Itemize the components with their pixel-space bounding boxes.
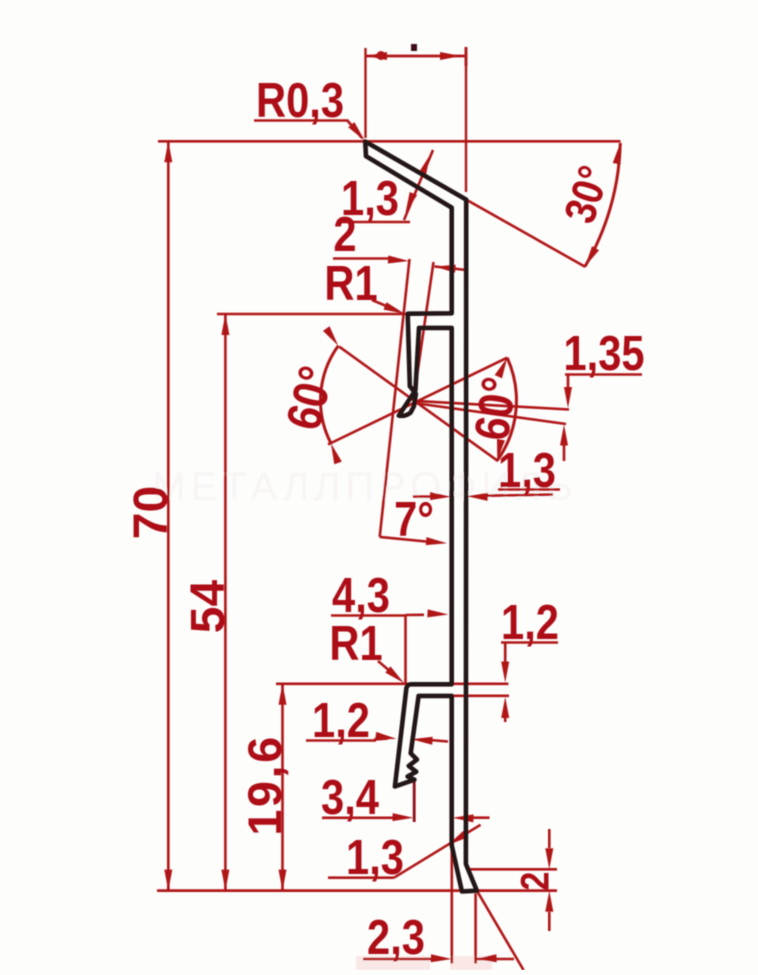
reference line y890 [157, 889, 557, 892]
svg-text:7°: 7° [394, 492, 434, 547]
svg-text:R1: R1 [324, 256, 377, 311]
angle 60deg left [276, 326, 345, 464]
label 1,3 top leader [338, 150, 433, 226]
label 1,3 bottom leader [328, 825, 481, 885]
dimension 19,6 [238, 684, 291, 891]
reference line y141 [158, 140, 621, 143]
angle 30deg arm arc label [466, 143, 620, 267]
extension line y684 [276, 682, 508, 685]
svg-text:1,35: 1,35 [563, 326, 644, 381]
extension tilted left (7deg line) [380, 259, 410, 537]
kick extension diagonal [477, 891, 524, 970]
extension line y696 [453, 694, 509, 697]
label R1 bottom leader [329, 616, 404, 683]
profile outline [365, 142, 477, 892]
bottom pink smudge 2 [450, 956, 492, 970]
dimension 70 [125, 141, 178, 890]
dimension 1,35 [560, 326, 645, 461]
angle 7deg baseline [380, 492, 447, 547]
svg-text:19,6: 19,6 [238, 734, 291, 835]
dimension 2 bottom [467, 829, 557, 931]
dimension 1,2 left [306, 693, 448, 748]
svg-text:60°: 60° [464, 374, 527, 444]
extension tilted right [414, 262, 434, 400]
svg-text:2: 2 [333, 207, 356, 262]
svg-text:2,3: 2,3 [367, 910, 425, 965]
extension line y314 [217, 313, 406, 316]
dimension top-width line [366, 44, 466, 66]
fan line D [414, 403, 566, 424]
dimension 54 [182, 314, 235, 891]
extension line top-left [364, 48, 366, 138]
fan line C [413, 401, 569, 410]
svg-text:R1: R1 [329, 616, 382, 671]
svg-text:70: 70 [125, 486, 178, 539]
fan line B [328, 358, 507, 445]
dimension 1,3 wall [413, 443, 560, 501]
label R1 top leader [324, 256, 404, 314]
label R0,3 with leader [254, 73, 365, 141]
dimension 4,3 [331, 568, 449, 684]
fan line A [339, 347, 498, 462]
svg-text:2: 2 [512, 872, 557, 891]
extension line top-right [465, 47, 467, 192]
bottom pink smudge 1 [356, 956, 430, 970]
dimension 3,4 [321, 770, 489, 825]
svg-text:54: 54 [182, 580, 235, 634]
dimension 2 top [333, 207, 467, 273]
dimension 2,3 [363, 843, 514, 965]
dimension 1,2 right [501, 595, 559, 722]
angle 60deg right [464, 358, 527, 461]
